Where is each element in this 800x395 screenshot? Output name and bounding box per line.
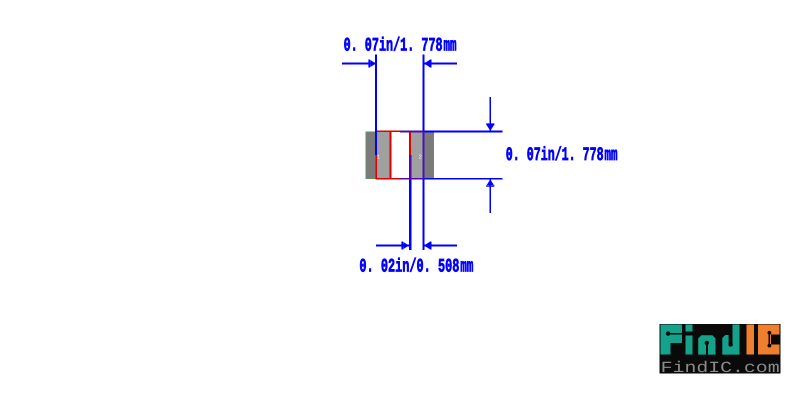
terminal demarcation line left (red): [390, 131, 392, 178]
logo letter n (teal): [698, 335, 715, 354]
svg-text:FindIC.com: FindIC.com: [661, 359, 780, 377]
right height dimension arrow bottom: [486, 179, 494, 213]
component end cap left (dark gray): [366, 132, 376, 179]
extension line y=178.8 (height dim, bottom): [400, 178, 503, 180]
extension line x=423.5 (shared right): [423, 55, 425, 251]
svg-text:mm: mm: [605, 144, 618, 166]
purple overlap top line: [400, 130, 424, 132]
component end cap right (dark gray): [424, 132, 434, 179]
svg-text:1: 1: [377, 153, 381, 160]
svg-text:mm: mm: [444, 35, 457, 57]
pad 2 (right terminal, light gray): [410, 132, 424, 178]
component outline (red): [376, 131, 423, 178]
logo letter d (teal): [732, 324, 739, 354]
extension line y=131.4 (height dim, top): [400, 130, 503, 132]
purple overlap bottom line: [400, 178, 424, 180]
logo letter i (teal): [686, 324, 693, 331]
svg-text:0. 02in/0. 508: 0. 02in/0. 508: [359, 256, 459, 278]
logo letter F (teal): [661, 324, 682, 354]
purple overlap vertical at x=423.5 inside body: [423, 131, 425, 178]
FindIC logo: [660, 324, 781, 377]
logo background: [660, 324, 781, 374]
logo letter C (orange): [758, 325, 780, 355]
bottom dimension arrow left: [376, 241, 409, 249]
terminal demarcation line right (red): [409, 131, 411, 178]
svg-text:mm: mm: [460, 256, 473, 278]
top width dimension arrow right: [424, 59, 457, 67]
svg-text:0. 07in/1. 778: 0. 07in/1. 778: [344, 35, 443, 57]
extension line x=410.2 (bottom dim, left): [409, 155, 411, 250]
pad 1 (left terminal, light gray): [376, 132, 390, 178]
logo letter I (orange): [747, 324, 754, 354]
extension line x=376 (top width dim, left): [375, 55, 377, 156]
bottom dimension arrow right: [424, 241, 457, 249]
right height dimension arrow top: [486, 97, 494, 131]
top width dimension arrow left: [342, 59, 376, 67]
purple overlap vertical at x=410.2: [409, 155, 411, 179]
svg-text:2: 2: [419, 153, 423, 160]
svg-text:0. 07in/1. 778: 0. 07in/1. 778: [506, 144, 604, 166]
